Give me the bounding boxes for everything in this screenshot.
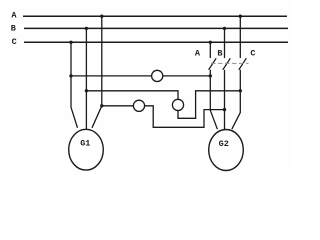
node: lamp line 1 left junction — [69, 74, 72, 77]
switch SC upper stub — [239, 16, 241, 58]
svg-text:A: A — [195, 49, 201, 59]
node: bus A / switch SC tap — [239, 15, 242, 18]
bus line C — [24, 41, 288, 43]
bus line A — [23, 15, 287, 17]
svg-text:B: B — [217, 49, 222, 59]
switch SB upper stub — [224, 28, 226, 58]
wire: G1 phase-C leg from bus C down, slant to G1 top-left — [71, 42, 78, 128]
svg-text:B: B — [11, 23, 16, 33]
svg-text:G1: G1 — [80, 139, 90, 149]
lamp L3 — [133, 100, 144, 111]
node: bus B / switch SB tap — [223, 27, 226, 30]
svg-text:A: A — [11, 11, 17, 21]
wire: switch SA lower leg, slant to G2 top-left — [210, 70, 217, 129]
node: bus C / G1 tap — [69, 41, 72, 44]
node: lamp line 2 right junction — [239, 89, 242, 92]
wire: lamp line 1 (bus C side to switch-A leg) — [71, 75, 210, 77]
wire: lamp line 2 left segment from B leg — [86, 91, 178, 100]
wire: switch SC lower leg, slant to G2 top-right — [232, 70, 241, 129]
switch SA blade — [209, 58, 217, 70]
wire: G1 phase-A leg from bus A down to node, slant to G1 top-right — [92, 16, 102, 128]
wire: lamp line 3 from A leg node — [102, 106, 225, 128]
node: bus A / G1 tap — [100, 15, 103, 18]
wire: G1 phase-B leg from bus B straight into G1 top — [85, 28, 87, 130]
svg-text:C: C — [250, 49, 255, 59]
node: lamp line 3 right junction — [223, 108, 226, 111]
node: lamp line 3 left junction — [100, 104, 103, 107]
bus line B — [24, 27, 288, 29]
generator G1 — [69, 129, 104, 170]
wire: switch SB lower leg straight into G2 top — [224, 70, 226, 130]
node: lamp line 2 left junction — [85, 89, 88, 92]
wire: lamp line 2 right segment to switch-C leg — [178, 91, 240, 119]
lamp L1 — [152, 70, 163, 81]
switch SA upper stub — [209, 42, 211, 58]
switch linkage (dashed tie bar) — [211, 62, 249, 64]
node: bus B / G1 tap — [85, 27, 88, 30]
node: bus C / switch SA tap — [209, 41, 212, 44]
node: lamp line 1 right junction — [209, 74, 212, 77]
svg-text:G2: G2 — [219, 139, 229, 149]
generator G2 — [209, 130, 244, 171]
switch SB blade — [223, 58, 231, 70]
lamp L2 — [172, 99, 183, 110]
svg-text:C: C — [12, 37, 17, 47]
switch SC blade — [239, 58, 247, 70]
